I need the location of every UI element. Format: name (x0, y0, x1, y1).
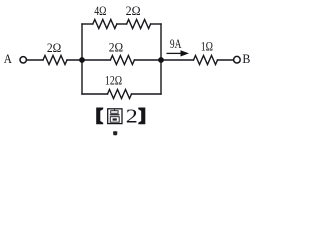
caption right lenticular bracket (138, 108, 145, 125)
svg-text:9A: 9A (170, 36, 182, 51)
svg-text:2Ω: 2Ω (47, 40, 62, 55)
wire R6 to terminal B (218, 59, 234, 61)
caption glyph bottom box (110, 117, 119, 123)
node R junction dot (158, 57, 164, 63)
cut-off mark of next line below caption (113, 131, 117, 135)
svg-text:A: A (4, 51, 13, 66)
wire between top resistors (117, 23, 127, 25)
resistor R3 2ohm (middle branch) (110, 56, 134, 65)
svg-text:2: 2 (126, 106, 138, 128)
svg-text:12Ω: 12Ω (105, 73, 122, 88)
caption glyph bottom inner mark (113, 118, 117, 120)
caption glyph top tick (114, 109, 115, 110)
terminal B circle (234, 56, 241, 63)
svg-text:2Ω: 2Ω (126, 3, 141, 18)
caption left lenticular bracket (96, 108, 103, 125)
resistor R6 1ohm (series, right) (194, 56, 218, 65)
wire node L to middle resistor (82, 59, 110, 61)
resistor R5 12ohm (bottom branch) (108, 90, 132, 99)
resistor R1 2ohm (series, left) (43, 56, 67, 65)
wire node R toward R6 (161, 59, 194, 61)
wire middle resistor to node R (134, 59, 161, 61)
current arrow 9A shaft (167, 52, 183, 54)
resistor R2 4ohm (top branch) (93, 20, 117, 29)
svg-text:4Ω: 4Ω (94, 3, 106, 18)
wire top rail left (82, 23, 93, 25)
caption glyph TU (figure) outer box (108, 109, 122, 124)
svg-text:B: B (242, 51, 250, 66)
wire bottom rail left (82, 93, 108, 95)
terminal A circle (20, 57, 26, 63)
wire right vertical bus (160, 24, 162, 94)
resistor R4 2ohm (top branch) (127, 20, 151, 29)
wire A to R1 (27, 59, 43, 61)
wire left vertical bus (81, 24, 83, 94)
svg-text:2Ω: 2Ω (109, 39, 124, 54)
caption glyph middle bar (110, 114, 120, 115)
svg-text:1Ω: 1Ω (201, 38, 214, 53)
caption glyph inner top box (111, 111, 118, 114)
node L junction dot (79, 57, 85, 63)
current arrow head (181, 50, 190, 56)
wire bottom rail right (132, 93, 162, 95)
wire R1 to node L (67, 59, 82, 61)
wire top rail right (151, 23, 161, 25)
